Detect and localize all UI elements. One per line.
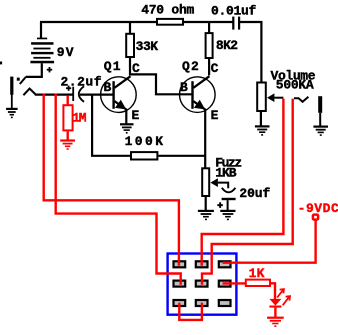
svg-text:8K2: 8K2 (216, 38, 238, 53)
svg-text:Q2: Q2 (182, 59, 200, 74)
switch pad r1c3 (218, 260, 232, 268)
input jack J1 (stereo, battery switch) (0, 62, 36, 109)
wire red E: switch top-right pad to -9VDC terminal (223, 220, 316, 263)
switch pad r3c3 (218, 299, 232, 307)
wire red G: bottom-left pad to bottom-middle pad (179, 303, 202, 320)
potentiometer Volume 500KA (257, 83, 283, 126)
ground (LED, red) (267, 317, 284, 327)
svg-text:33K: 33K (136, 39, 159, 54)
switch pad r2c1 (172, 280, 186, 288)
svg-text:C: C (211, 61, 219, 76)
ground (output jack) (313, 126, 328, 136)
wire red A: input to switch top-left pad (44, 94, 179, 266)
terminal -9VDC (313, 215, 318, 220)
wire: top rail (40, 22, 261, 82)
capacitor 20uf (217, 188, 235, 210)
transistor Q2 (180, 76, 216, 168)
switch pad r2c3 (218, 280, 232, 288)
resistor 33K (126, 22, 134, 75)
svg-text:-9VDC: -9VDC (298, 201, 338, 216)
switch pad r1c2 (195, 260, 209, 268)
ground (fuzz pot) (198, 210, 214, 220)
svg-text:470 ohm: 470 ohm (141, 3, 194, 18)
capacitor 0.01uf (232, 17, 240, 30)
wire: Q1 collector to Q2 base (129, 74, 192, 94)
LED D1 (269, 289, 290, 317)
switch pad r1c1 (172, 260, 186, 268)
wire red: 1K to LED (271, 283, 275, 299)
svg-text:Q1: Q1 (104, 59, 122, 74)
wire red F: switch middle-right pad to 1K (223, 282, 246, 284)
potentiometer Fuzz 1KB (202, 168, 228, 210)
wire red D: output jack to switch middle-middle pad (202, 99, 293, 285)
switch 3PDT (blue outline) (168, 254, 237, 315)
svg-text:B: B (104, 80, 112, 95)
ground (Q1 emitter) (120, 123, 134, 133)
svg-text:E: E (132, 108, 140, 123)
resistor 1K (246, 280, 270, 286)
output jack J2 (294, 96, 322, 126)
ground (volume pot) (255, 125, 270, 135)
svg-text:1K: 1K (249, 266, 265, 281)
wire red B: input to switch middle-left pad (56, 94, 181, 285)
ground (20uf) (220, 210, 235, 220)
svg-text:1M: 1M (72, 111, 87, 126)
resistor 8K2 (206, 22, 213, 75)
battery B1 9V (26, 22, 54, 77)
ground (input jack) (6, 108, 18, 118)
switch pad r3c1 (172, 299, 186, 307)
switch pad r3c2 (195, 299, 209, 307)
resistor 100K (92, 95, 205, 160)
svg-text:20uf: 20uf (239, 186, 270, 201)
wire: 2.2uf to Q1 base (80, 93, 113, 95)
svg-text:B: B (180, 80, 188, 95)
wire: input to 2.2uf (35, 93, 73, 95)
resistor 1M (63, 96, 72, 140)
ground (1M, red) (60, 139, 75, 149)
svg-text:E: E (211, 108, 219, 123)
resistor 470 ohm (157, 19, 183, 25)
svg-text:100K: 100K (125, 134, 166, 149)
svg-text:0.01uf: 0.01uf (211, 4, 257, 19)
svg-text:1KB: 1KB (215, 165, 237, 180)
switch pad r2c2 (195, 280, 209, 288)
wire red C: volume wiper to switch top-middle pad (202, 99, 284, 266)
capacitor 2.2uf C1 (66, 86, 84, 102)
transistor Q1 (101, 76, 137, 123)
svg-text:500KA: 500KA (276, 77, 314, 92)
svg-text:9V: 9V (57, 45, 75, 60)
svg-text:2.2uf: 2.2uf (61, 74, 103, 89)
